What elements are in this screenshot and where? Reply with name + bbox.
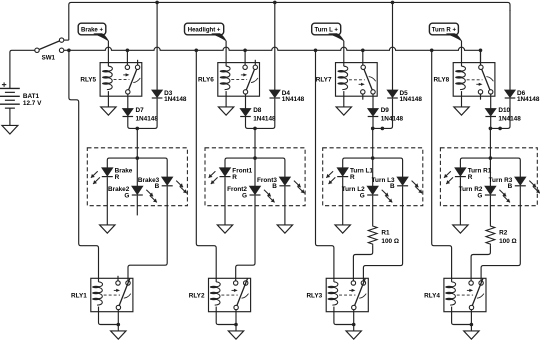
- resistor R1: [368, 225, 377, 246]
- LED Brake3: [162, 177, 187, 193]
- node junction rail feed RLY4: [430, 49, 434, 53]
- label Front1: [232, 168, 252, 175]
- net flag Headlight +: [185, 23, 227, 41]
- svg-text:Turn L +: Turn L +: [314, 27, 338, 33]
- label Front1 R: [232, 174, 237, 181]
- wire rail to RLY3 coil: [316, 50, 334, 278]
- relay RLY2 switch: [234, 279, 249, 310]
- label Turn L3: [372, 177, 395, 184]
- svg-text:RLY2: RLY2: [189, 292, 205, 299]
- LED Brake: [91, 168, 113, 184]
- node junction top rail D5: [391, 1, 395, 5]
- wire from top rail corner to SW1 upper throw: [64, 39, 69, 41]
- relay RLY7 box: [336, 63, 378, 97]
- wire RLY5 coil to ground: [107, 96, 109, 107]
- relay RLY1 switch: [116, 276, 131, 310]
- svg-text:BAT1: BAT1: [23, 93, 40, 100]
- wire D8 cathode to D4 cathode: [246, 99, 275, 129]
- relay RLY7 actuator: [349, 80, 365, 86]
- svg-text:G: G: [124, 192, 129, 199]
- LED Front2: [250, 186, 275, 202]
- wire Turn R1 cathode to ground: [459, 177, 461, 225]
- svg-text:1N4148: 1N4148: [136, 115, 159, 122]
- wire RLY3 common to ground node: [353, 310, 355, 331]
- label D8: [253, 107, 262, 114]
- ground RLY7 coil: [336, 107, 351, 115]
- wire bus to LED Turn R2: [489, 158, 491, 186]
- svg-text:R2: R2: [499, 230, 508, 237]
- wire RLY4 common to ground node: [470, 310, 472, 331]
- svg-text:G: G: [360, 192, 365, 199]
- diode D4: [270, 90, 281, 98]
- relay RLY3 actuator: [339, 289, 355, 295]
- wire feed to LED module 2: [254, 128, 256, 158]
- wire RLY6 common to D8: [245, 94, 247, 108]
- node junction module feed 3: [371, 127, 375, 131]
- LED Front1: [209, 168, 231, 184]
- net flag Turn L +: [312, 23, 344, 41]
- ground RLY1: [111, 331, 126, 339]
- label RLY5: [80, 76, 96, 83]
- wire feed to LED module 3: [372, 128, 374, 158]
- label Turn L1: [350, 168, 373, 175]
- label R2 100 ohm: [499, 238, 517, 245]
- label RLY2: [189, 292, 205, 299]
- wire feed to LED module 1: [136, 128, 138, 158]
- label D7: [136, 107, 145, 114]
- svg-text:SW1: SW1: [42, 54, 56, 61]
- relay RLY5 actuator: [114, 73, 130, 79]
- wire flag Brake + to RLY5 coil: [107, 41, 109, 63]
- relay RLY8 switch: [478, 65, 493, 100]
- node junction RLY3 ground: [352, 323, 356, 327]
- label D5: [400, 90, 409, 97]
- relay RLY5 switch: [125, 60, 140, 94]
- wire Front2 cathode to RLY2: [236, 196, 255, 281]
- node junction RLY2 ground: [234, 323, 238, 327]
- wire switched 12V rail: [69, 47, 481, 65]
- relay RLY6 box: [218, 63, 260, 97]
- label RLY1: [71, 292, 87, 299]
- wire flag Turn R + to RLY8 coil: [461, 41, 463, 63]
- wire Turn L1 cathode to ground: [342, 177, 344, 225]
- label 12.7 V: [23, 100, 42, 107]
- relay RLY6 switch: [243, 60, 258, 94]
- wire flag Headlight + to RLY6 coil: [225, 41, 227, 63]
- wire R2 to RLY4 NC contact: [471, 246, 490, 281]
- label D4: [282, 90, 291, 97]
- wire rail to RLY2 coil: [196, 50, 216, 278]
- relay RLY7 switch: [361, 65, 376, 100]
- ground LED Turn L1: [335, 225, 350, 233]
- diode D9: [368, 109, 379, 117]
- svg-text:G: G: [477, 192, 482, 199]
- wire LED module bus 1: [107, 158, 167, 177]
- ground LED Front1: [217, 225, 232, 233]
- wire Brake2 cathode stub: [136, 196, 138, 216]
- LED module 3 dashed box: [323, 148, 423, 206]
- label RLY6: [198, 76, 214, 83]
- relay RLY3 coil: [328, 278, 338, 311]
- svg-text:RLY1: RLY1: [71, 292, 87, 299]
- node junction rail feed RLY3: [314, 49, 318, 53]
- relay RLY7 coil: [337, 63, 347, 97]
- wire LED module bus 3: [343, 158, 403, 177]
- label Turn L2: [342, 186, 365, 193]
- wire Front3 cathode to ground: [284, 186, 286, 225]
- relay RLY8 actuator: [467, 80, 483, 86]
- LED module 4 dashed box: [440, 148, 537, 206]
- node junction top rail D3: [155, 1, 159, 5]
- svg-text:RLY3: RLY3: [306, 292, 322, 299]
- svg-text:B: B: [272, 183, 277, 190]
- label Brake3 B: [155, 183, 160, 190]
- label D10 1N4148: [498, 115, 521, 122]
- wire Brake cathode to ground: [106, 177, 108, 225]
- wire RLY5 common to D7: [127, 94, 129, 108]
- node junction module feed 4: [489, 127, 493, 131]
- ground LED Front3: [277, 225, 292, 233]
- label Front2 G: [242, 192, 247, 199]
- LED Front3: [279, 177, 304, 193]
- label Brake2 G: [124, 192, 129, 199]
- svg-text:R1: R1: [381, 230, 390, 237]
- label Turn R1: [468, 168, 492, 175]
- svg-text:R: R: [468, 174, 473, 181]
- label D9 1N4148: [381, 115, 404, 122]
- svg-text:Turn R +: Turn R +: [432, 27, 457, 33]
- wire RLY4 coil to ground node: [452, 312, 472, 325]
- node junction LED bus 3: [371, 156, 375, 160]
- svg-text:R: R: [350, 174, 355, 181]
- svg-text:100 Ω: 100 Ω: [499, 238, 517, 245]
- relay RLY6 coil: [220, 63, 230, 97]
- label R1 100 ohm: [381, 238, 399, 245]
- net flag Brake +: [78, 23, 108, 41]
- LED Turn R1: [444, 168, 466, 184]
- svg-text:B: B: [155, 183, 160, 190]
- svg-text:D9: D9: [381, 107, 390, 114]
- svg-text:RLY5: RLY5: [80, 76, 96, 83]
- label R1: [381, 230, 390, 237]
- relay RLY3 switch: [351, 279, 366, 310]
- label Turn L1 R: [350, 174, 355, 181]
- svg-text:100 Ω: 100 Ω: [381, 238, 399, 245]
- diode D10: [485, 109, 496, 117]
- label D7 1N4148: [136, 115, 159, 122]
- wire rail to RLY4 coil: [432, 50, 452, 278]
- diode D5: [387, 90, 398, 98]
- relay RLY4 actuator: [457, 289, 473, 295]
- wire Turn L3 cathode to RLY3 NO contact: [363, 186, 402, 280]
- label Turn L3 B: [390, 183, 395, 190]
- label R2: [499, 230, 508, 237]
- ground RLY8 coil: [454, 107, 469, 115]
- svg-text:D10: D10: [498, 107, 510, 114]
- diode D6: [505, 90, 516, 98]
- label SW1: [42, 54, 56, 61]
- label Front3: [257, 177, 277, 184]
- wire Front1 cathode to ground: [224, 177, 226, 225]
- resistor R2: [486, 225, 495, 246]
- node junction rail RLY5: [126, 49, 130, 53]
- node junction rail RLY6: [243, 49, 247, 53]
- svg-text:R: R: [232, 174, 237, 181]
- wire RLY3 coil to ground node: [334, 312, 354, 325]
- wire RLY7 coil to ground: [343, 96, 345, 107]
- relay RLY2 box: [209, 278, 251, 311]
- svg-text:1N4148: 1N4148: [164, 96, 187, 103]
- relay RLY8 box: [453, 63, 495, 97]
- svg-text:Headlight +: Headlight +: [188, 27, 221, 33]
- ground LED Brake: [100, 225, 115, 233]
- relay RLY6 actuator: [231, 73, 247, 79]
- label RLY7: [316, 76, 332, 83]
- label Brake R: [115, 174, 120, 181]
- wire RLY8 coil to ground: [461, 96, 463, 107]
- label D10: [498, 107, 510, 114]
- relay RLY5 box: [100, 63, 142, 97]
- label RLY3: [306, 292, 322, 299]
- label D3 1N4148: [164, 96, 187, 103]
- ground RLY3: [346, 331, 361, 339]
- ground LED Turn R1: [453, 225, 468, 233]
- wire top rail to D4: [274, 2, 276, 90]
- relay RLY5 coil: [102, 63, 112, 97]
- wire rail to RLY8 common: [480, 50, 482, 65]
- net flag Turn R +: [429, 23, 461, 41]
- ground RLY2: [228, 331, 243, 339]
- label Turn R1 R: [468, 174, 473, 181]
- svg-text:12.7 V: 12.7 V: [23, 100, 42, 107]
- wire LED module bus 4: [460, 158, 520, 177]
- wire battery negative lead: [9, 108, 11, 125]
- wire Turn R3 cathode to RLY4 NO contact: [481, 186, 520, 280]
- switch SW1: [35, 38, 64, 53]
- label BAT1: [23, 93, 40, 100]
- wire rail to RLY1 coil: [69, 50, 99, 278]
- wire Turn R2 cathode to R2: [489, 196, 491, 225]
- svg-text:B: B: [390, 183, 395, 190]
- node junction module feed 2: [253, 127, 257, 131]
- svg-text:G: G: [242, 192, 247, 199]
- LED Turn R2: [485, 186, 510, 202]
- LED Turn L3: [397, 177, 422, 193]
- wire SW1 lower throw to rail: [64, 49, 69, 51]
- wire rail to RLY5 NC contact: [126, 50, 128, 65]
- node junction LED bus 4: [489, 156, 493, 160]
- diode D7: [123, 109, 134, 117]
- wire feed to LED module 4: [489, 128, 491, 158]
- wire RLY1 common to ground node: [117, 310, 119, 331]
- label Turn R2: [459, 186, 483, 193]
- node junction mid rail 4: [498, 127, 502, 131]
- label Turn L2 G: [360, 192, 365, 199]
- wire rail to RLY6 NC contact: [244, 50, 246, 65]
- svg-text:1N4148: 1N4148: [400, 96, 423, 103]
- wire D9 cathode to D5 cathode: [373, 99, 393, 129]
- relay RLY8 coil: [455, 63, 465, 97]
- diode D3: [152, 90, 163, 98]
- node junction rail RLY7: [361, 49, 365, 53]
- ground RLY6 coil: [218, 107, 233, 115]
- label RLY8: [433, 76, 449, 83]
- label Brake3: [138, 177, 160, 184]
- label RLY4: [424, 292, 440, 299]
- ground RLY5 coil: [101, 107, 116, 115]
- wire top rail to D5: [392, 2, 394, 90]
- relay RLY1 actuator: [104, 289, 120, 295]
- node junction module feed 1: [136, 127, 140, 131]
- diode D8: [240, 109, 251, 117]
- LED Brake2: [132, 186, 157, 202]
- wire LED module bus 2: [225, 158, 285, 177]
- ground RLY4: [464, 331, 479, 339]
- label Turn R2 G: [477, 192, 482, 199]
- label D4 1N4148: [282, 96, 305, 103]
- node junction RLY4 ground: [470, 323, 474, 327]
- battery BAT1: [0, 82, 20, 108]
- wire top rail corner to D6: [509, 10, 511, 90]
- node junction SW1 rail to RLY1 coil feed: [67, 49, 71, 53]
- svg-text:Brake +: Brake +: [81, 27, 103, 33]
- node junction rail feed RLY2: [195, 49, 199, 53]
- relay RLY3 box: [326, 278, 368, 311]
- node junction LED bus 1: [136, 156, 140, 160]
- wire RLY1 coil to ground node: [99, 312, 119, 325]
- wire bus to LED Front2: [254, 158, 256, 186]
- wire flag Turn L + to RLY7 coil: [343, 41, 345, 63]
- LED Turn L2: [367, 186, 392, 202]
- LED module 2 dashed box: [205, 148, 305, 206]
- wire Brake3 cathode to RLY1: [128, 186, 167, 280]
- label Brake2: [108, 186, 130, 193]
- label D5 1N4148: [400, 96, 423, 103]
- wire top rail to D3: [156, 2, 158, 90]
- label Brake: [115, 168, 133, 175]
- label Turn R3: [489, 177, 513, 184]
- svg-text:D8: D8: [253, 107, 262, 114]
- svg-text:RLY4: RLY4: [424, 292, 440, 299]
- wire RLY6 coil to ground: [225, 96, 227, 107]
- node junction top rail D4: [273, 1, 277, 5]
- relay RLY4 switch: [469, 279, 484, 310]
- LED Turn R3: [515, 177, 540, 193]
- wire RLY2 coil to ground node: [216, 312, 236, 325]
- node junction LED bus 2: [253, 156, 257, 160]
- label D3: [164, 90, 173, 97]
- relay RLY2 actuator: [221, 289, 237, 295]
- label Front2: [227, 186, 247, 193]
- label D6 1N4148: [517, 96, 540, 103]
- label D6: [517, 90, 526, 97]
- wire bus to LED Turn L2: [372, 158, 374, 186]
- LED module 1 dashed box: [87, 148, 187, 206]
- wire R1 to RLY3 NC contact: [353, 246, 372, 281]
- svg-text:1N4148: 1N4148: [253, 115, 276, 122]
- wire bus to LED Brake2: [136, 158, 138, 186]
- relay RLY1 coil: [92, 278, 102, 311]
- svg-text:1N4148: 1N4148: [282, 96, 305, 103]
- LED Turn L1: [326, 168, 348, 184]
- svg-text:RLY8: RLY8: [433, 76, 449, 83]
- label Turn R3 B: [508, 183, 513, 190]
- node junction mid rail 3: [381, 127, 385, 131]
- wire battery positive to SW1 common: [10, 50, 35, 88]
- label D9: [381, 107, 390, 114]
- node junction RLY1 ground: [117, 323, 121, 327]
- wire RLY7 NO contact to D9: [372, 94, 374, 108]
- wire D7 cathode to D3 cathode: [128, 99, 157, 129]
- svg-text:1N4148: 1N4148: [517, 96, 540, 103]
- svg-text:B: B: [508, 183, 513, 190]
- ground battery: [2, 125, 18, 134]
- svg-text:R: R: [115, 174, 120, 181]
- label D8 1N4148: [253, 115, 276, 122]
- wire rail to RLY7 common: [362, 50, 364, 65]
- relay RLY4 box: [444, 278, 486, 311]
- wire RLY8 NO contact to D10: [490, 94, 492, 108]
- node junction rail RLY8: [479, 49, 483, 53]
- wire D10 cathode to D6 cathode: [491, 99, 510, 129]
- wire RLY2 common to ground node: [235, 310, 237, 331]
- relay RLY4 coil: [445, 278, 455, 311]
- label Front3 B: [272, 183, 277, 190]
- svg-text:RLY7: RLY7: [316, 76, 332, 83]
- svg-text:D7: D7: [136, 107, 145, 114]
- svg-text:RLY6: RLY6: [198, 76, 214, 83]
- wire top +12V rail: [69, 2, 510, 40]
- relay RLY2 coil: [210, 278, 220, 311]
- relay RLY1 box: [91, 278, 133, 311]
- wire Turn L2 cathode to R1: [372, 196, 374, 225]
